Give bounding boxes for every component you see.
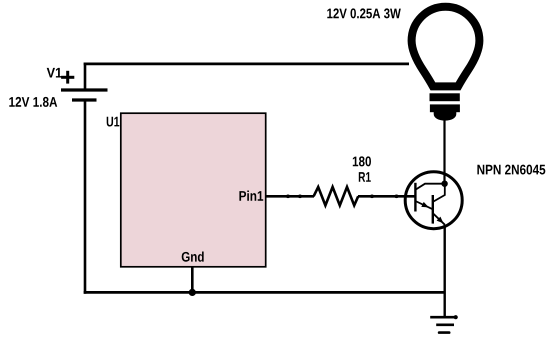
label 12V 1.8A xyxy=(9,97,57,107)
lamp base ring 2 xyxy=(430,104,460,112)
transistor Q1 inner base bar 1 xyxy=(414,183,416,212)
label 12V 0.25A 3W xyxy=(327,8,401,18)
junction dot at Gnd on bottom bus xyxy=(189,289,196,296)
label NPN 2N6045 xyxy=(477,165,545,175)
label U1 xyxy=(107,117,120,127)
lamp base cap xyxy=(434,112,457,121)
battery V1 xyxy=(61,71,108,100)
transistor Q1 circle xyxy=(405,172,462,229)
wire battery negative lead down left side xyxy=(84,100,87,294)
transistor Q1 inner emitter 1 with arrow xyxy=(415,201,432,209)
ground symbol xyxy=(430,317,455,332)
wire Pin1 to resistor R1 xyxy=(266,195,315,198)
wire bottom bus xyxy=(84,291,445,294)
lamp base ring 1 xyxy=(430,93,460,101)
label pin Pin1 xyxy=(239,191,263,201)
label V1 xyxy=(47,68,62,78)
resistor R1 zigzag xyxy=(314,187,359,205)
wire transistor emitter down to ground xyxy=(444,225,446,318)
lamp DS1 glass xyxy=(412,7,480,87)
wire battery positive lead xyxy=(84,63,87,91)
label R1 xyxy=(359,172,371,182)
transistor Q1 inner collector path 1 xyxy=(415,184,444,190)
junction dot collector node xyxy=(441,181,447,187)
wire top bus from battery positive to lamp xyxy=(84,63,409,66)
wire joint nubs on base wire xyxy=(286,195,399,199)
IC U1 body xyxy=(121,113,266,267)
transistor Q1 inner emitter 2 with arrow xyxy=(433,213,445,225)
label 180 xyxy=(353,156,371,166)
transistor Q1 inner collector path 2 xyxy=(433,184,445,202)
wire U1 Gnd to bottom bus xyxy=(191,267,194,293)
wire lamp to transistor collector xyxy=(443,119,445,184)
transistor Q1 inner base bar 2 xyxy=(432,195,434,224)
label pin Gnd xyxy=(182,251,204,261)
wire resistor to transistor base xyxy=(358,195,415,198)
ground bar end dot xyxy=(454,315,458,319)
